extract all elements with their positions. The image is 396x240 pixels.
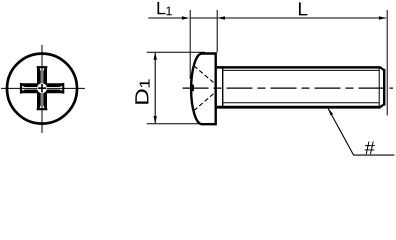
D1 extension line bottom <box>147 123 199 125</box>
L dimension line <box>218 17 386 19</box>
head outline circle (front view) <box>7 54 77 124</box>
axis centerline (side view) <box>183 87 394 89</box>
thread runout line <box>222 66 224 108</box>
thread leader line <box>328 109 394 156</box>
extension line screw tip <box>386 10 388 116</box>
L arrow left <box>217 16 225 19</box>
D1 dimension line <box>154 53 156 123</box>
D1 label (rotated) <box>135 79 149 103</box>
shank top major line <box>217 66 381 69</box>
tip chamfer top <box>380 67 384 70</box>
recess center relief (front view) <box>37 83 47 93</box>
center mark (front view) <box>38 84 46 92</box>
Phillips recess cross (front view) <box>20 66 64 110</box>
recess hidden line lower <box>194 93 215 111</box>
tip chamfer bottom <box>380 104 384 107</box>
L1 arrow (right-pointing) <box>182 16 190 19</box>
vertical centerline (front view) <box>41 45 43 133</box>
chamfer start line <box>378 68 380 107</box>
L arrow right <box>379 16 387 19</box>
extension line bearing surface <box>216 10 218 52</box>
thread minor line top <box>223 69 379 71</box>
D1 extension line top <box>147 51 205 53</box>
shank bottom major line <box>217 106 381 109</box>
recess slot edge on dome <box>190 85 194 92</box>
L label <box>299 2 307 15</box>
thread minor line bottom <box>223 102 379 104</box>
recess hidden line upper <box>194 66 215 84</box>
leader arrowhead <box>328 108 333 115</box>
# label <box>365 141 375 154</box>
horizontal centerline (front view) <box>1 87 85 89</box>
D1 arrow down <box>154 116 157 124</box>
L1 dimension line <box>148 17 182 19</box>
D1 arrow up <box>154 52 157 60</box>
extension line head front <box>189 10 191 79</box>
head profile (side view) <box>191 54 216 125</box>
tip end face <box>383 69 385 106</box>
L1 label <box>157 2 171 15</box>
L1-L connector line <box>190 17 217 19</box>
